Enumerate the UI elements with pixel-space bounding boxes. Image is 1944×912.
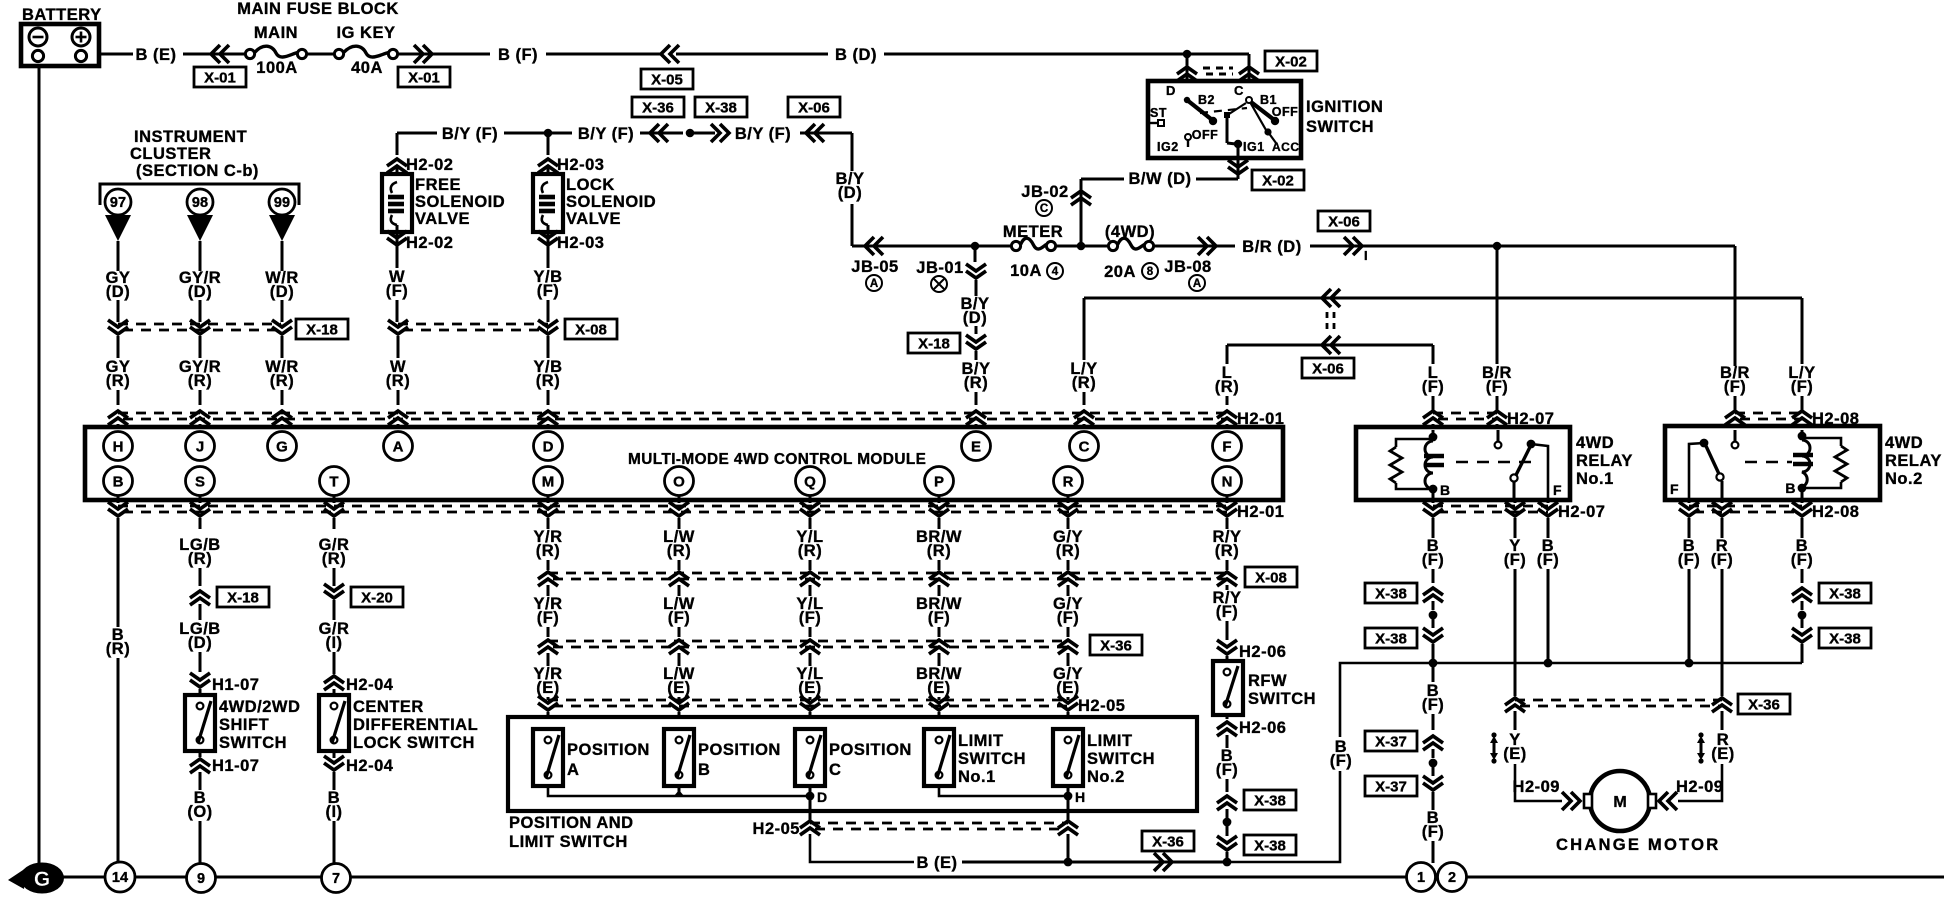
connector chevron H2-01b col M (538, 502, 558, 516)
fuse MAIN 100A (245, 46, 306, 58)
connector arrow X-02 (1239, 67, 1259, 81)
svg-text:H2-06: H2-06 (1239, 719, 1286, 737)
svg-text:B (E): B (E) (136, 46, 177, 64)
svg-text:14: 14 (112, 870, 128, 886)
connector row H2-05 bottom (809, 796, 812, 821)
svg-text:(F): (F) (1057, 609, 1080, 627)
svg-text:B/Y (F): B/Y (F) (442, 125, 498, 143)
svg-text:X-37: X-37 (1375, 733, 1407, 750)
svg-text:SOLENOID: SOLENOID (566, 193, 656, 211)
wire B/Y(F) (397, 132, 437, 135)
connector chevron H2-05b H (1058, 821, 1078, 835)
svg-text:7: 7 (332, 871, 340, 887)
connector X-02 bottom (1252, 170, 1304, 190)
svg-text:SWITCH: SWITCH (219, 734, 287, 752)
module pin G (268, 432, 297, 461)
svg-text:1: 1 (1417, 870, 1425, 886)
svg-text:A: A (870, 278, 878, 290)
svg-text:H: H (1075, 789, 1086, 805)
switch position A (533, 729, 563, 786)
svg-text:CLUSTER: CLUSTER (130, 145, 211, 163)
circled X JB-01 (931, 276, 947, 292)
svg-text:X-38: X-38 (1375, 585, 1407, 602)
connector chevron H2-01 col 398 (388, 411, 408, 425)
relay2 coil (1801, 430, 1804, 435)
junction X-37 (1429, 759, 1438, 768)
arrow up-down R (1697, 732, 1705, 763)
wire down L (F) (1432, 345, 1435, 364)
connector chevron X-08 Y/R (538, 572, 558, 586)
svg-text:(F): (F) (1422, 823, 1445, 841)
connector chevron H2-05 BR/W (929, 696, 949, 710)
svg-text:SWITCH: SWITCH (1087, 750, 1155, 768)
wire to ignition switch (884, 53, 1249, 56)
relay1 dashed link (1456, 461, 1532, 464)
connector chevron X-36 G/Y (1058, 640, 1078, 654)
svg-text:(E): (E) (1711, 745, 1735, 763)
connector chevron H2-05 Y/R (538, 696, 558, 710)
node H (1064, 792, 1073, 801)
connector arrow X-02 bottom (1228, 160, 1248, 174)
module pin O (665, 467, 694, 496)
ignition switch (1148, 81, 1301, 158)
svg-text:(F): (F) (1504, 551, 1527, 569)
connector chevron H2-01 col 976 (966, 411, 986, 425)
svg-text:(E): (E) (1503, 745, 1527, 763)
RFW switch (1213, 661, 1243, 715)
connector chevron X-38 top (1423, 588, 1443, 602)
connector chevron H2-01 col 282 (272, 411, 292, 425)
svg-text:(F): (F) (1791, 551, 1814, 569)
connector chevron X-36 BR/W (929, 640, 949, 654)
svg-text:(F): (F) (386, 282, 409, 300)
wire (690, 132, 715, 135)
module pin Q (796, 467, 825, 496)
svg-text:C: C (1234, 83, 1244, 98)
svg-text:OFF: OFF (1192, 128, 1219, 142)
connector chevron X-18 col 200 (190, 320, 210, 334)
svg-text:INSTRUMENT: INSTRUMENT (134, 128, 247, 146)
connector row X-18 (118, 323, 281, 326)
junction (1183, 50, 1192, 59)
ignition switch blade B1 (1246, 97, 1252, 103)
svg-text:(SECTION C-b): (SECTION C-b) (136, 162, 259, 180)
connector chevron H2-08b (1712, 502, 1732, 516)
svg-text:SHIFT: SHIFT (219, 716, 269, 734)
svg-text:X-01: X-01 (204, 69, 236, 86)
svg-text:(R): (R) (1056, 542, 1080, 560)
connector row H2-07 top (1433, 412, 1497, 415)
svg-text:G: G (34, 868, 50, 891)
connector chevron H2-04 top (324, 676, 344, 690)
position and limit switch box (508, 717, 1197, 811)
connector X-18 box E col (908, 333, 960, 353)
connector chevron X-36 Y (1505, 698, 1525, 712)
cluster arrow 282 (269, 215, 295, 241)
svg-text:(R): (R) (964, 374, 988, 392)
svg-text:C: C (1079, 438, 1090, 455)
svg-text:(F): (F) (1216, 761, 1239, 779)
svg-text:(F): (F) (537, 282, 560, 300)
connector chevron X-08 col 548 (538, 320, 558, 334)
connector row H2-08 top (1735, 412, 1802, 415)
wire B(E) up right (1227, 771, 1340, 862)
svg-text:(R): (R) (386, 372, 410, 390)
connector X-38 box r2 top (1819, 583, 1871, 603)
4WD relay No.2 (1665, 426, 1880, 500)
connector pin 98 (187, 189, 213, 215)
svg-text:X-01: X-01 (408, 69, 440, 86)
svg-text:99: 99 (274, 195, 290, 211)
svg-text:100A: 100A (256, 59, 297, 77)
svg-text:POSITION: POSITION (567, 741, 650, 759)
wire to ignition B2 (1186, 54, 1189, 81)
wire to ignition B1 (1248, 54, 1251, 81)
svg-text:(F): (F) (928, 609, 951, 627)
wire R to motor (1678, 764, 1722, 801)
wire (1310, 245, 1497, 248)
connector dashes X-02 (1203, 67, 1233, 70)
svg-text:8: 8 (1147, 266, 1154, 278)
module pin J (186, 432, 215, 461)
junction B/W branch (1077, 242, 1086, 251)
ground pin 1 (1407, 863, 1436, 892)
connector chevron X-18 E col (966, 335, 986, 349)
svg-text:(R): (R) (106, 372, 130, 390)
connector chevron X-08 L/W (669, 572, 689, 586)
svg-text:(D): (D) (188, 634, 212, 652)
svg-text:SWITCH: SWITCH (1306, 118, 1374, 136)
svg-text:S: S (195, 473, 205, 490)
svg-text:H2-07: H2-07 (1558, 503, 1605, 521)
connector chevron X-36 L/W (669, 640, 689, 654)
limit switch No.2 (1053, 729, 1083, 786)
connector X-08 box N (1245, 567, 1297, 587)
connector chevron X-18 S (190, 591, 210, 605)
connector chevron H2-08b (1792, 502, 1812, 516)
wire B/Y(D) down (851, 133, 854, 171)
relay1 coil (1425, 441, 1433, 489)
wire down to L/Y (F) (1801, 298, 1804, 364)
svg-text:BATTERY: BATTERY (22, 6, 102, 24)
wire (1226, 345, 1229, 364)
instrument cluster bracket (100, 184, 299, 205)
svg-text:R: R (1063, 473, 1074, 490)
connector row X-36 mid (548, 640, 1068, 643)
arrow up-down Y (1490, 732, 1498, 763)
connector arrow H2-09 right (1659, 792, 1677, 810)
wire B rail (1340, 663, 1802, 737)
connector chevron H2-01 col 200 (190, 411, 210, 425)
svg-text:(R): (R) (1215, 378, 1239, 396)
module pin A (384, 432, 413, 461)
svg-text:B/R (D): B/R (D) (1242, 238, 1301, 256)
wire B/Y to E (974, 246, 977, 262)
svg-text:JB-08: JB-08 (1164, 258, 1211, 276)
svg-text:JB-01: JB-01 (916, 259, 963, 277)
svg-text:DIFFERENTIAL: DIFFERENTIAL (353, 716, 478, 734)
connector X-05 (641, 69, 693, 89)
connector chevron X-08 Y/L (800, 572, 820, 586)
module pin P (925, 467, 954, 496)
connector chevron X-18 col 118 (108, 320, 128, 334)
svg-text:C: C (1040, 203, 1048, 215)
svg-text:RELAY: RELAY (1576, 452, 1633, 470)
svg-text:(F): (F) (799, 609, 822, 627)
svg-text:J: J (196, 438, 204, 455)
connector chevron H2-06 bottom (1217, 722, 1237, 736)
svg-text:X-18: X-18 (918, 335, 950, 352)
svg-text:IGNITION: IGNITION (1306, 98, 1383, 116)
svg-text:F: F (1670, 481, 1679, 497)
svg-text:H2-01: H2-01 (1237, 503, 1284, 521)
svg-text:(R): (R) (188, 550, 212, 568)
svg-text:20A: 20A (1104, 263, 1136, 281)
connector X-38 box2 (1365, 628, 1417, 648)
svg-text:H: H (113, 438, 124, 455)
svg-text:(D): (D) (188, 283, 212, 301)
cluster arrow 200 (187, 215, 213, 241)
svg-text:H2-06: H2-06 (1239, 643, 1286, 661)
switch position B (664, 729, 694, 786)
relay2 input pin (1734, 430, 1737, 441)
wire meter row (852, 245, 1016, 248)
lock solenoid valve (547, 133, 550, 155)
wire (398, 53, 490, 56)
connector row H2-01 top (118, 412, 1227, 415)
svg-text:H2-09: H2-09 (1676, 778, 1723, 796)
svg-text:F: F (1553, 482, 1562, 498)
ignition coupling dashes (1200, 108, 1247, 113)
fuse 4WD 20A (1108, 238, 1153, 250)
wire (800, 132, 852, 135)
connector chevron X-08 col 398 (388, 320, 408, 334)
svg-text:D: D (1166, 83, 1176, 98)
connector chevron H2-07b (1538, 502, 1558, 516)
svg-text:No.2: No.2 (1885, 470, 1923, 488)
svg-text:B2: B2 (1198, 93, 1215, 107)
wire (183, 53, 245, 56)
svg-text:(R): (R) (1215, 542, 1239, 560)
ignition switch blade B2 (1184, 97, 1190, 103)
connector dashes X-06 (1326, 312, 1329, 334)
wire B/R down to relay2 (1734, 246, 1737, 366)
connector X-01 (194, 67, 246, 87)
svg-text:(E): (E) (1056, 679, 1080, 697)
connector chevron X-36 R (1712, 698, 1732, 712)
svg-text:O: O (673, 473, 685, 490)
junction B rail relay1F (1544, 659, 1553, 668)
shift switch rect (185, 695, 215, 751)
svg-text:X-02: X-02 (1262, 172, 1294, 189)
connector X-08 box (565, 319, 617, 339)
connector chevron X-36 Y/R (538, 640, 558, 654)
connector row X-08 top (398, 323, 548, 326)
module pin R (1054, 467, 1083, 496)
svg-text:10A: 10A (1010, 262, 1042, 280)
svg-text:(E): (E) (536, 679, 560, 697)
svg-text:E: E (971, 438, 981, 455)
svg-text:(R): (R) (270, 372, 294, 390)
connector chevron H2-07b (1423, 502, 1443, 516)
connector row H2-07 bottom (1433, 505, 1548, 508)
svg-text:B (E): B (E) (917, 854, 958, 872)
connector chevron H2-05 L/W (669, 696, 689, 710)
relay1 switch (1510, 474, 1517, 481)
connector chevron X-38 bottom (1423, 628, 1443, 642)
module pin C (1070, 432, 1099, 461)
svg-text:H2-02: H2-02 (406, 234, 453, 252)
wire (676, 53, 828, 56)
svg-text:SOLENOID: SOLENOID (415, 193, 505, 211)
wire (1432, 663, 1435, 682)
svg-text:(R): (R) (536, 542, 560, 560)
svg-text:A: A (567, 761, 579, 779)
svg-text:X-38: X-38 (1829, 585, 1861, 602)
svg-text:4: 4 (1052, 266, 1059, 278)
connector chevron H2-01 col 1227 (1217, 411, 1237, 425)
svg-text:LOCK: LOCK (566, 176, 615, 194)
cluster arrow 118 (105, 215, 131, 241)
connector X-20 box (351, 587, 403, 607)
wire B(E) (810, 834, 914, 862)
junction B/Y (544, 129, 553, 138)
ignition IG1 path (1224, 112, 1230, 118)
wire (307, 53, 334, 56)
svg-text:X-38: X-38 (1254, 792, 1286, 809)
connector chevron X-18 col 282 (272, 320, 292, 334)
connector X-37 box1 (1365, 731, 1417, 751)
svg-text:X-05: X-05 (651, 71, 683, 88)
wire L/Y horizontal (1084, 297, 1802, 300)
svg-text:POSITION AND: POSITION AND (509, 814, 634, 832)
svg-text:No.1: No.1 (958, 768, 996, 786)
svg-text:MAIN FUSE BLOCK: MAIN FUSE BLOCK (237, 0, 399, 18)
svg-text:(I): (I) (325, 634, 342, 652)
svg-text:H2-09: H2-09 (1513, 778, 1560, 796)
circled C (1036, 200, 1052, 216)
svg-text:G: G (276, 438, 288, 455)
wire L horizontal (1227, 344, 1433, 347)
connector arrow X-36 (650, 124, 668, 142)
connector chevron H2-01b col S (190, 502, 210, 516)
svg-text:H2-03: H2-03 (557, 234, 604, 252)
svg-text:(R): (R) (322, 550, 346, 568)
free solenoid valve (396, 133, 399, 155)
wire (1154, 245, 1235, 248)
connector chevron H1-07 top (190, 673, 210, 687)
wire (1081, 178, 1124, 181)
svg-text:Q: Q (804, 473, 816, 490)
svg-text:98: 98 (192, 195, 208, 211)
relay1 coil top junction (1429, 433, 1438, 442)
svg-text:(F): (F) (1724, 378, 1747, 396)
change motor (1584, 771, 1656, 831)
svg-text:(R): (R) (667, 542, 691, 560)
svg-text:B (F): B (F) (498, 46, 538, 64)
svg-text:B: B (1440, 482, 1451, 498)
wire Y to motor (1515, 764, 1562, 801)
connector row X-36 motor (1515, 699, 1722, 702)
svg-text:IG KEY: IG KEY (337, 24, 396, 42)
svg-text:H2-08: H2-08 (1812, 503, 1859, 521)
svg-text:B: B (698, 761, 710, 779)
connector arrow X-06 lower (1322, 336, 1340, 354)
wire down to L/Y (R) (1083, 298, 1086, 360)
svg-text:MAIN: MAIN (254, 24, 298, 42)
connector chevron X-36 Y/L (800, 640, 820, 654)
module pin D (534, 432, 563, 461)
svg-text:(R): (R) (798, 542, 822, 560)
relay1 resistor (1396, 439, 1433, 447)
connector chevron H1-07 bottom (190, 759, 210, 773)
connector chevron H2-05b D (800, 821, 820, 835)
battery (21, 24, 99, 66)
svg-text:X-08: X-08 (1255, 569, 1287, 586)
connector chevron X-20 (324, 584, 344, 598)
connector X-38 box RFW bottom (1244, 835, 1296, 855)
ground pin 14 (105, 862, 135, 892)
svg-text:X-36: X-36 (1152, 833, 1184, 850)
connector X-02 (1265, 51, 1317, 71)
svg-text:SWITCH: SWITCH (958, 750, 1026, 768)
svg-text:FREE: FREE (415, 176, 461, 194)
connector X-36 box mid (1090, 635, 1142, 655)
wire (1056, 245, 1113, 248)
svg-text:H1-07: H1-07 (212, 676, 259, 694)
connector arrow X-01 right (414, 45, 432, 63)
module pin F (1213, 432, 1242, 461)
relay2 coil top junction (1798, 432, 1807, 441)
svg-text:B/Y (F): B/Y (F) (735, 125, 791, 143)
svg-text:X-38: X-38 (1254, 837, 1286, 854)
module pin B (104, 467, 133, 496)
junction E column (971, 242, 980, 251)
4WD relay No.1 (1356, 427, 1570, 500)
connector chevron X-38 bottom RFW (1217, 836, 1237, 850)
svg-text:X-02: X-02 (1275, 53, 1307, 70)
junction B(E) H col (1064, 858, 1073, 867)
connector X-18 box (296, 319, 348, 339)
svg-text:X-08: X-08 (575, 321, 607, 338)
svg-text:IG2: IG2 (1157, 140, 1179, 154)
wire battery to ground (38, 66, 41, 869)
connector chevron H2-07b (1505, 502, 1525, 516)
connector chevron X-08 N (1217, 572, 1237, 586)
junction B rail relay1B (1429, 659, 1438, 668)
svg-text:B: B (113, 473, 124, 490)
svg-text:(F): (F) (1791, 378, 1814, 396)
connector row H2-05 top (548, 699, 1068, 702)
svg-text:I: I (1364, 248, 1368, 263)
connector arrow X-01 left (211, 45, 229, 63)
circled 8 (1142, 263, 1158, 279)
connector X-38 box RFW top (1244, 790, 1296, 810)
connector arrow H2-09 left (1562, 792, 1580, 810)
svg-text:B (D): B (D) (835, 46, 877, 64)
wire IG1 out (1237, 158, 1240, 179)
connector arrow X-06 upper (1322, 289, 1340, 307)
ground pin 2 (1438, 863, 1467, 892)
svg-text:(D): (D) (270, 283, 294, 301)
connector X-06 right (1318, 211, 1370, 231)
limit switch No.1 (924, 729, 954, 786)
svg-text:(O): (O) (187, 803, 212, 821)
connector arrow JB-08 (1198, 237, 1216, 255)
module pin S (186, 467, 215, 496)
node D (806, 792, 815, 801)
wire (504, 132, 572, 135)
